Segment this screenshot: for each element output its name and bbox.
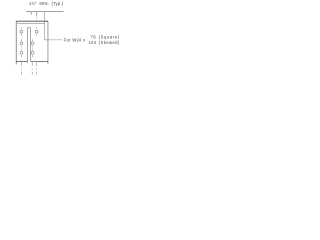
plate bottom edge right segment	[31, 60, 48, 62]
bolt hole C2 mid col row2	[31, 42, 34, 45]
center tick below C3	[32, 55, 34, 57]
center tick above A2	[20, 39, 22, 41]
bolt hole A2 left col row2	[20, 42, 23, 45]
center tick below A2	[20, 46, 22, 48]
plate right edge	[47, 21, 49, 64]
extension tick right	[36, 12, 38, 16]
centerline below plate mid col	[31, 62, 33, 74]
centerline below plate left col	[20, 62, 22, 74]
plate top edge	[16, 20, 48, 22]
center tick below A3	[20, 55, 22, 57]
center tick above C2	[32, 39, 34, 41]
bolt hole A3 left col row3	[20, 51, 23, 54]
svg-text:104 (Skewed): 104 (Skewed)	[88, 40, 120, 45]
center tick above C3	[32, 49, 34, 51]
vertical slot open at bottom	[27, 27, 30, 63]
svg-text:76 (Square): 76 (Square)	[91, 34, 120, 39]
center tick below B1	[36, 34, 38, 36]
center tick below C2	[32, 46, 34, 48]
centerline below plate right col	[36, 62, 38, 74]
center tick above B1	[36, 27, 38, 29]
dimension line	[26, 11, 64, 13]
inner edge line (skewed plate edge)	[17, 23, 44, 25]
plate left edge	[15, 21, 17, 64]
svg-text:For W24 x: For W24 x	[64, 37, 86, 42]
center tick above A3	[20, 49, 22, 51]
svg-text:1½" MIN. (Typ.): 1½" MIN. (Typ.)	[29, 1, 64, 6]
bolt hole A1 left col row1	[20, 30, 23, 33]
plate bottom edge left segment	[16, 60, 27, 62]
leader polyline from dimension line to callout text	[45, 12, 63, 40]
center tick above A1	[20, 27, 22, 29]
leader arrowhead	[45, 39, 47, 40]
bolt hole B1 right col row1	[35, 30, 38, 33]
center tick below A1	[20, 34, 22, 36]
bolt hole C3 mid col row3	[31, 51, 34, 54]
faint extension of right tick to plate	[36, 16, 38, 21]
extension tick left	[30, 12, 32, 15]
